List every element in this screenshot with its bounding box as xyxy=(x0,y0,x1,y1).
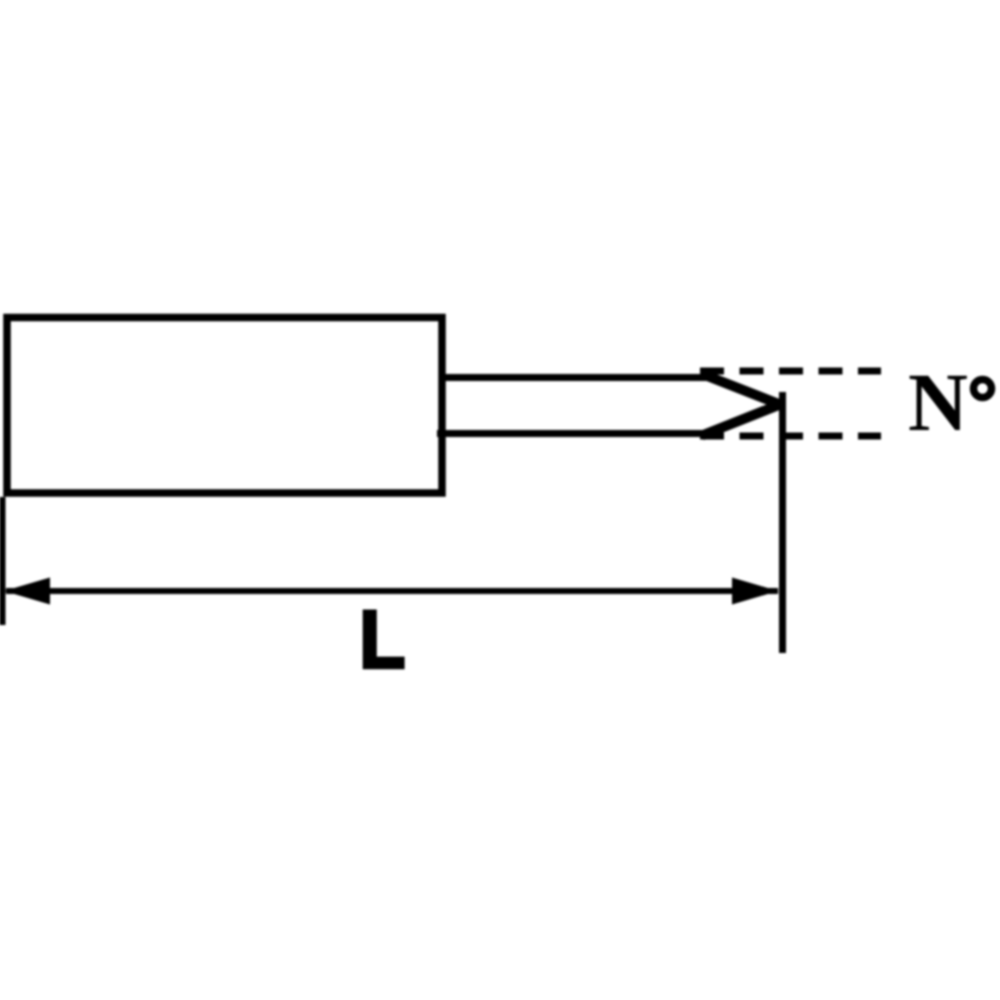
degree symbol of N° xyxy=(974,380,992,398)
handle rectangle xyxy=(7,318,442,494)
dimension line L xyxy=(6,588,778,594)
svg-text:L: L xyxy=(359,594,405,686)
blade top line xyxy=(441,374,712,381)
dimension arrowhead left xyxy=(4,578,50,605)
blade bottom line xyxy=(437,430,712,437)
svg-text:N: N xyxy=(908,356,968,448)
left extension line xyxy=(0,497,6,625)
dashed line top xyxy=(700,368,881,375)
dashed line bottom xyxy=(700,433,881,440)
blade tip upper diagonal xyxy=(701,374,780,405)
blade tip lower diagonal xyxy=(702,405,780,436)
right extension line xyxy=(779,392,786,653)
dimension arrowhead right xyxy=(732,578,778,605)
